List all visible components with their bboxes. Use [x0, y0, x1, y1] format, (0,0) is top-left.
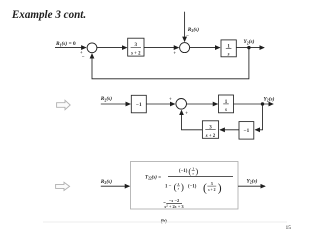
wire M3 to M4 [220, 129, 239, 131]
block T22 equation box [131, 162, 239, 210]
summing junction S2 [180, 43, 190, 53]
fraction bar main [168, 176, 233, 178]
svg-text:s: s [227, 52, 230, 57]
wire S1 to G1 [97, 47, 127, 49]
block G2 1/s [221, 40, 236, 58]
svg-text:R2(s): R2(s) [100, 178, 112, 185]
summing junction S1 [87, 43, 97, 53]
footer divider line [43, 221, 287, 223]
svg-text:(: ( [188, 166, 191, 176]
node Y2 takeoff dot [247, 46, 250, 49]
svg-text:(: ( [174, 182, 177, 193]
svg-text:s + 2: s + 2 [205, 134, 216, 139]
svg-text:(: ( [203, 182, 207, 194]
svg-text:): ) [218, 182, 222, 194]
wire R1 input [55, 47, 86, 49]
block M1 -1 [131, 95, 146, 113]
denominator 1-(1/s)(-1)(3/(s+2)) [165, 181, 222, 195]
svg-text:Y2(s): Y2(s) [264, 96, 275, 103]
svg-text:−s −2: −s −2 [169, 198, 180, 203]
wire R2 into T22 box [101, 185, 130, 187]
svg-text:−: − [186, 34, 189, 39]
wire G2 to output Y2 [236, 47, 264, 49]
svg-text:s + 2: s + 2 [207, 188, 216, 192]
wire S2 to G2 [190, 47, 220, 49]
svg-text:3: 3 [211, 181, 213, 186]
block M2 1/s [219, 95, 234, 113]
svg-text:−: − [82, 55, 85, 60]
equation result line 2 [163, 198, 184, 209]
svg-text:s: s [224, 108, 227, 113]
svg-text:T22(s) =: T22(s) = [145, 175, 161, 180]
wire T22 box to output [238, 185, 265, 187]
svg-text:+: + [169, 98, 172, 103]
svg-text:1: 1 [178, 182, 180, 186]
wire R2 to M1 [101, 103, 130, 105]
svg-text:Example 3 cont.: Example 3 cont. [11, 9, 86, 21]
block arrow implication 1 [57, 100, 71, 109]
wire feedback top diagram [92, 48, 249, 79]
svg-text:R2(s): R2(s) [100, 95, 112, 102]
svg-text:R1(s) = 0: R1(s) = 0 [55, 40, 76, 47]
wire R2 into S2 [184, 12, 186, 42]
svg-text:R2(s): R2(s) [187, 26, 199, 33]
svg-text:(−1): (−1) [179, 169, 188, 174]
svg-text:+: + [173, 52, 176, 57]
summing junction S3 [176, 99, 187, 110]
svg-text:s + 2: s + 2 [130, 51, 141, 56]
svg-text:): ) [195, 166, 198, 176]
svg-text:Y2(s): Y2(s) [244, 38, 255, 45]
svg-text:−1: −1 [136, 102, 142, 108]
wire M4 up into S3 [182, 111, 203, 130]
node Y2 takeoff dot middle [261, 102, 264, 105]
wire S3 to M2 [187, 103, 218, 105]
wire M1 to S3 [146, 103, 174, 105]
wire M2 to output Y2 middle [234, 103, 274, 105]
svg-text:+: + [185, 111, 188, 116]
numerator (-1)(1/s) [179, 166, 198, 176]
block arrow implication 2 [56, 182, 70, 190]
svg-text:1 −: 1 − [165, 184, 172, 189]
svg-text:−1: −1 [244, 128, 250, 134]
block M4 3/(s+2) [202, 121, 218, 139]
block G1 3/(s+2) [128, 38, 144, 56]
svg-text:Y2(s): Y2(s) [247, 178, 258, 185]
block M3 -1 [239, 122, 254, 140]
svg-text:1: 1 [192, 167, 194, 171]
svg-text:15: 15 [286, 225, 292, 231]
wire takeoff down to M3 [255, 104, 262, 130]
svg-text:(−1): (−1) [188, 184, 197, 189]
wire G1 to S2 [144, 47, 178, 49]
svg-text:): ) [181, 182, 184, 193]
